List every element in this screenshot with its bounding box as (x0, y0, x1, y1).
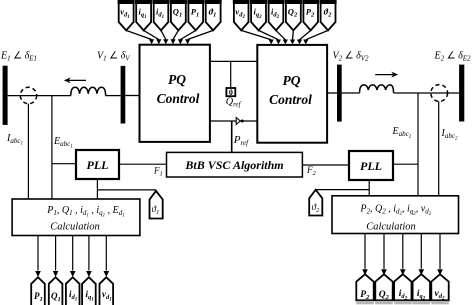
flag theta1 (150, 191, 163, 219)
arrowhead input 2 PQ1 (156, 39, 161, 44)
wire theta2 branch (316, 189, 369, 191)
wire calc2 out Q2 (383, 234, 385, 269)
wire flag Q2 to PQ2 (292, 30, 295, 39)
wire Eabc2 (417, 93, 419, 196)
arrowhead input 1 PQ2 (269, 40, 274, 45)
op block Calculation 1 (12, 199, 140, 236)
flag Q1 top (170, 0, 187, 30)
wire flag id1 to PQ1 (161, 30, 166, 39)
flag vd1 bottom (100, 277, 114, 305)
wire flag th2 to PQ2 (306, 30, 328, 39)
svg-text:PQ: PQ (168, 72, 186, 87)
junction dot Pref (241, 120, 244, 123)
wire Eabc1 (51, 96, 53, 199)
op block PQ Control 2 (257, 45, 327, 143)
wire flag iq2 to PQ2 (259, 30, 279, 39)
arrow left direction (66, 79, 86, 81)
wire theta1 branch (97, 189, 156, 191)
arrowhead input 2 PQ2 (276, 40, 281, 45)
arrowhead input 4 PQ2 (290, 40, 295, 45)
svg-text:V2 ∠ δV2: V2 ∠ δV2 (333, 51, 370, 63)
arrowhead input 3 PQ2 (283, 40, 288, 45)
svg-text:E1 ∠ δE1: E1 ∠ δE1 (0, 50, 37, 62)
wire main right b (394, 92, 460, 94)
wire Pref drop (231, 121, 233, 152)
flag id1 top (153, 0, 170, 30)
arrowhead out vd2 (437, 269, 443, 275)
svg-text:BtB VSC Algorithm: BtB VSC Algorithm (184, 158, 283, 172)
svg-text:F2: F2 (306, 165, 317, 177)
wire PLL1 theta out (96, 179, 98, 199)
wire PQ2 to V2 bus (327, 92, 337, 94)
arrowhead out P2 (362, 269, 368, 275)
arrowhead out id1 (70, 271, 76, 277)
flag P2 top (302, 0, 319, 30)
wire calc2 out id2 (402, 234, 404, 269)
CT circle right (dashed) (431, 85, 448, 102)
svg-text:V1 ∠ δV: V1 ∠ δV (97, 50, 130, 62)
wire calc1 out iq1 (88, 236, 90, 271)
flag Q1 bottom (49, 277, 63, 305)
wire PQ1 to PQ2 top link (210, 60, 257, 62)
arrow right direction (375, 74, 396, 76)
wire F1 (119, 163, 167, 165)
flag th2 top (320, 0, 337, 30)
wire Qref drop (230, 61, 232, 88)
wire calc2 out P2 (364, 234, 366, 269)
flag id1 bottom (66, 277, 80, 305)
flag th1 top (205, 0, 222, 30)
svg-text:PQ: PQ (283, 73, 301, 88)
Qref zero box (226, 88, 235, 96)
bus V1 (121, 66, 126, 124)
svg-text:PLL: PLL (360, 159, 382, 173)
bus E2 (459, 65, 464, 122)
wire calc2 out iq2 (420, 234, 422, 269)
CT circle left (dashed) (20, 87, 36, 103)
wire PLL2 theta out (368, 180, 370, 196)
flag vd2 bottom (431, 274, 449, 304)
wire PLL1 input (52, 163, 76, 165)
svg-text:E2 ∠ δE2: E2 ∠ δE2 (434, 50, 472, 62)
bus V2 (337, 65, 342, 122)
svg-text:PLL: PLL (87, 158, 109, 172)
flag P2 bottom (356, 274, 374, 304)
wire calc1 out id1 (72, 236, 74, 271)
arrowhead left direction (64, 77, 71, 83)
arrowhead input 6 PQ2 (303, 40, 308, 45)
wire calc1 out vd1 (105, 236, 107, 271)
svg-text:Eabc2: Eabc2 (392, 126, 412, 139)
wire flag P2 to PQ2 (300, 30, 311, 39)
arrow open Pref (236, 118, 240, 125)
arrowhead right direction (391, 72, 398, 78)
flag id2 bottom (394, 274, 412, 304)
wire calc2 out vd2 (439, 234, 441, 269)
wire flag vd1 to PQ1 (126, 30, 151, 39)
op block PLL2 (349, 151, 393, 180)
wire F2 (302, 164, 349, 166)
flag Q2 bottom (375, 274, 393, 304)
flag vd2 top (233, 0, 250, 30)
bus E1 (3, 66, 8, 125)
arrowhead input 6 PQ1 (185, 39, 190, 44)
svg-text:Qref: Qref (226, 97, 242, 109)
svg-text:Eabc1: Eabc1 (53, 136, 73, 149)
arrowhead input 3 PQ1 (163, 39, 168, 44)
arrowhead input 5 PQ2 (297, 40, 302, 45)
op block Calculation 2 (332, 196, 459, 234)
svg-text:Control: Control (269, 92, 312, 107)
op block PLL1 (76, 150, 119, 179)
arrowhead out Q2 (381, 269, 387, 275)
flag vd1 top (118, 0, 135, 30)
arrowhead out P1 (35, 271, 41, 277)
arrowhead out iq2 (419, 269, 425, 275)
arrowhead out vd1 (104, 271, 110, 277)
flag iq1 top (135, 0, 152, 30)
wire Pref horizontal (210, 120, 257, 122)
wire Iabc2 (438, 101, 440, 196)
arrowhead input 1 PQ1 (149, 39, 154, 44)
flag P1 top (187, 0, 204, 30)
svg-text:Calculation: Calculation (366, 221, 416, 232)
wire flag Q1 to PQ1 (173, 30, 178, 39)
svg-text:Pref: Pref (233, 134, 249, 147)
wire flag vd2 to PQ2 (241, 30, 271, 39)
flag id2 top (268, 0, 285, 30)
wire main left b (106, 95, 121, 97)
flag iq2 bottom (413, 274, 431, 304)
wire V1 bus to PQ1 (125, 95, 139, 97)
flag theta2 (309, 190, 322, 216)
svg-text:Iabc1: Iabc1 (6, 133, 23, 146)
svg-text:Control: Control (157, 91, 200, 106)
inductor L2 (360, 85, 394, 93)
svg-text:Iabc2: Iabc2 (441, 128, 458, 141)
op block PQ Control 1 (140, 45, 210, 142)
wire Iabc1 (27, 104, 29, 199)
wire flag iq1 to PQ1 (144, 30, 159, 39)
flag P1 bottom (31, 277, 45, 305)
flag iq2 top (250, 0, 267, 30)
flag iq1 bottom (82, 277, 96, 305)
wire flag id2 to PQ2 (276, 30, 285, 39)
svg-text:0: 0 (229, 88, 233, 97)
svg-text:F1: F1 (153, 166, 163, 178)
svg-text:Calculation: Calculation (50, 221, 100, 232)
wire PLL2 input (393, 163, 418, 165)
wire calc1 out P1 (37, 236, 39, 271)
wire flag P1 to PQ1 (180, 30, 195, 39)
arrowhead out iq1 (86, 271, 92, 277)
op block BtB VSC Algorithm (167, 152, 303, 177)
arrowhead input 5 PQ1 (178, 39, 183, 44)
arrowhead out id2 (400, 269, 406, 275)
flag Q2 top (285, 0, 302, 30)
wire calc1 out Q1 (55, 236, 57, 271)
arrowhead input 4 PQ1 (170, 39, 175, 44)
wire main right (342, 92, 360, 94)
wire main left (8, 95, 71, 97)
wire flag th1 to PQ1 (188, 30, 214, 39)
inductor L1 (71, 87, 106, 95)
arrowhead out Q1 (53, 271, 59, 277)
